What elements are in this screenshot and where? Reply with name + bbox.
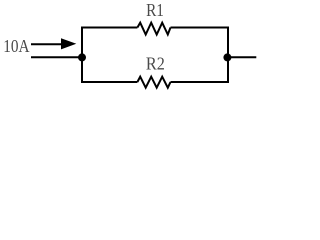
svg-text:R2: R2 <box>146 54 165 74</box>
svg-text:10A: 10A <box>3 36 29 56</box>
svg-text:R1: R1 <box>146 0 164 20</box>
